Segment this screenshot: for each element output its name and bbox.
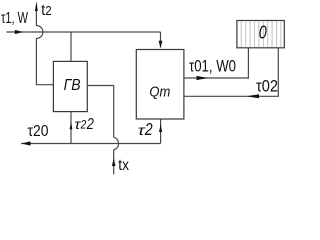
svg-text:ГВ: ГВ <box>64 77 81 94</box>
svg-text:t2: t2 <box>41 2 51 19</box>
arrow tau01 pointing right <box>197 76 209 80</box>
wire: GV right side to tx riser with hop over return line <box>87 86 118 175</box>
svg-text:τ20: τ20 <box>28 123 49 140</box>
svg-text:tx: tx <box>118 157 129 174</box>
wire: GV bottom down to return line (tau g2) <box>70 112 72 144</box>
arrow tau2 pointing up <box>159 125 162 133</box>
arrow on supply line pointing right <box>15 30 23 34</box>
wire: branch from supply line down to GV top <box>70 32 72 61</box>
wire: tau01,W0 line from Qm right to O left leg <box>184 48 249 78</box>
arrow tau20 pointing left <box>21 141 30 145</box>
svg-text:0: 0 <box>259 23 267 43</box>
svg-text:τ01, W0: τ01, W0 <box>189 58 236 76</box>
svg-text:2: 2 <box>86 116 94 133</box>
wire: tau02 line from O right leg back to Qm right <box>184 48 278 97</box>
block O (heated building) with vertical hatching <box>237 21 284 48</box>
svg-text:2: 2 <box>80 118 87 132</box>
block Qm (heating heat-exchanger) <box>136 50 184 120</box>
wire: supply line tau1,W horizontal <box>7 31 161 33</box>
svg-text:2: 2 <box>144 119 153 139</box>
arrow tx pointing up <box>112 158 116 166</box>
svg-text:Qm: Qm <box>149 84 170 101</box>
arrow tau02 pointing left <box>246 94 259 98</box>
wire: return line tau20 horizontal <box>21 143 160 145</box>
wire: riser from return line into Qm bottom (tau2) <box>160 119 162 144</box>
wire: drop from supply line into Qm top <box>160 32 162 48</box>
svg-text:τ1, W: τ1, W <box>1 10 28 27</box>
wire: tg riser with hop over supply line, then into GV left side <box>36 6 53 85</box>
block GV (hot-water heater) <box>53 61 87 111</box>
arrow tg pointing up <box>35 1 38 11</box>
arrow into Qm top pointing down <box>159 41 163 48</box>
svg-text:τ02: τ02 <box>256 78 278 96</box>
arrow tau g2 pointing up <box>70 122 73 129</box>
